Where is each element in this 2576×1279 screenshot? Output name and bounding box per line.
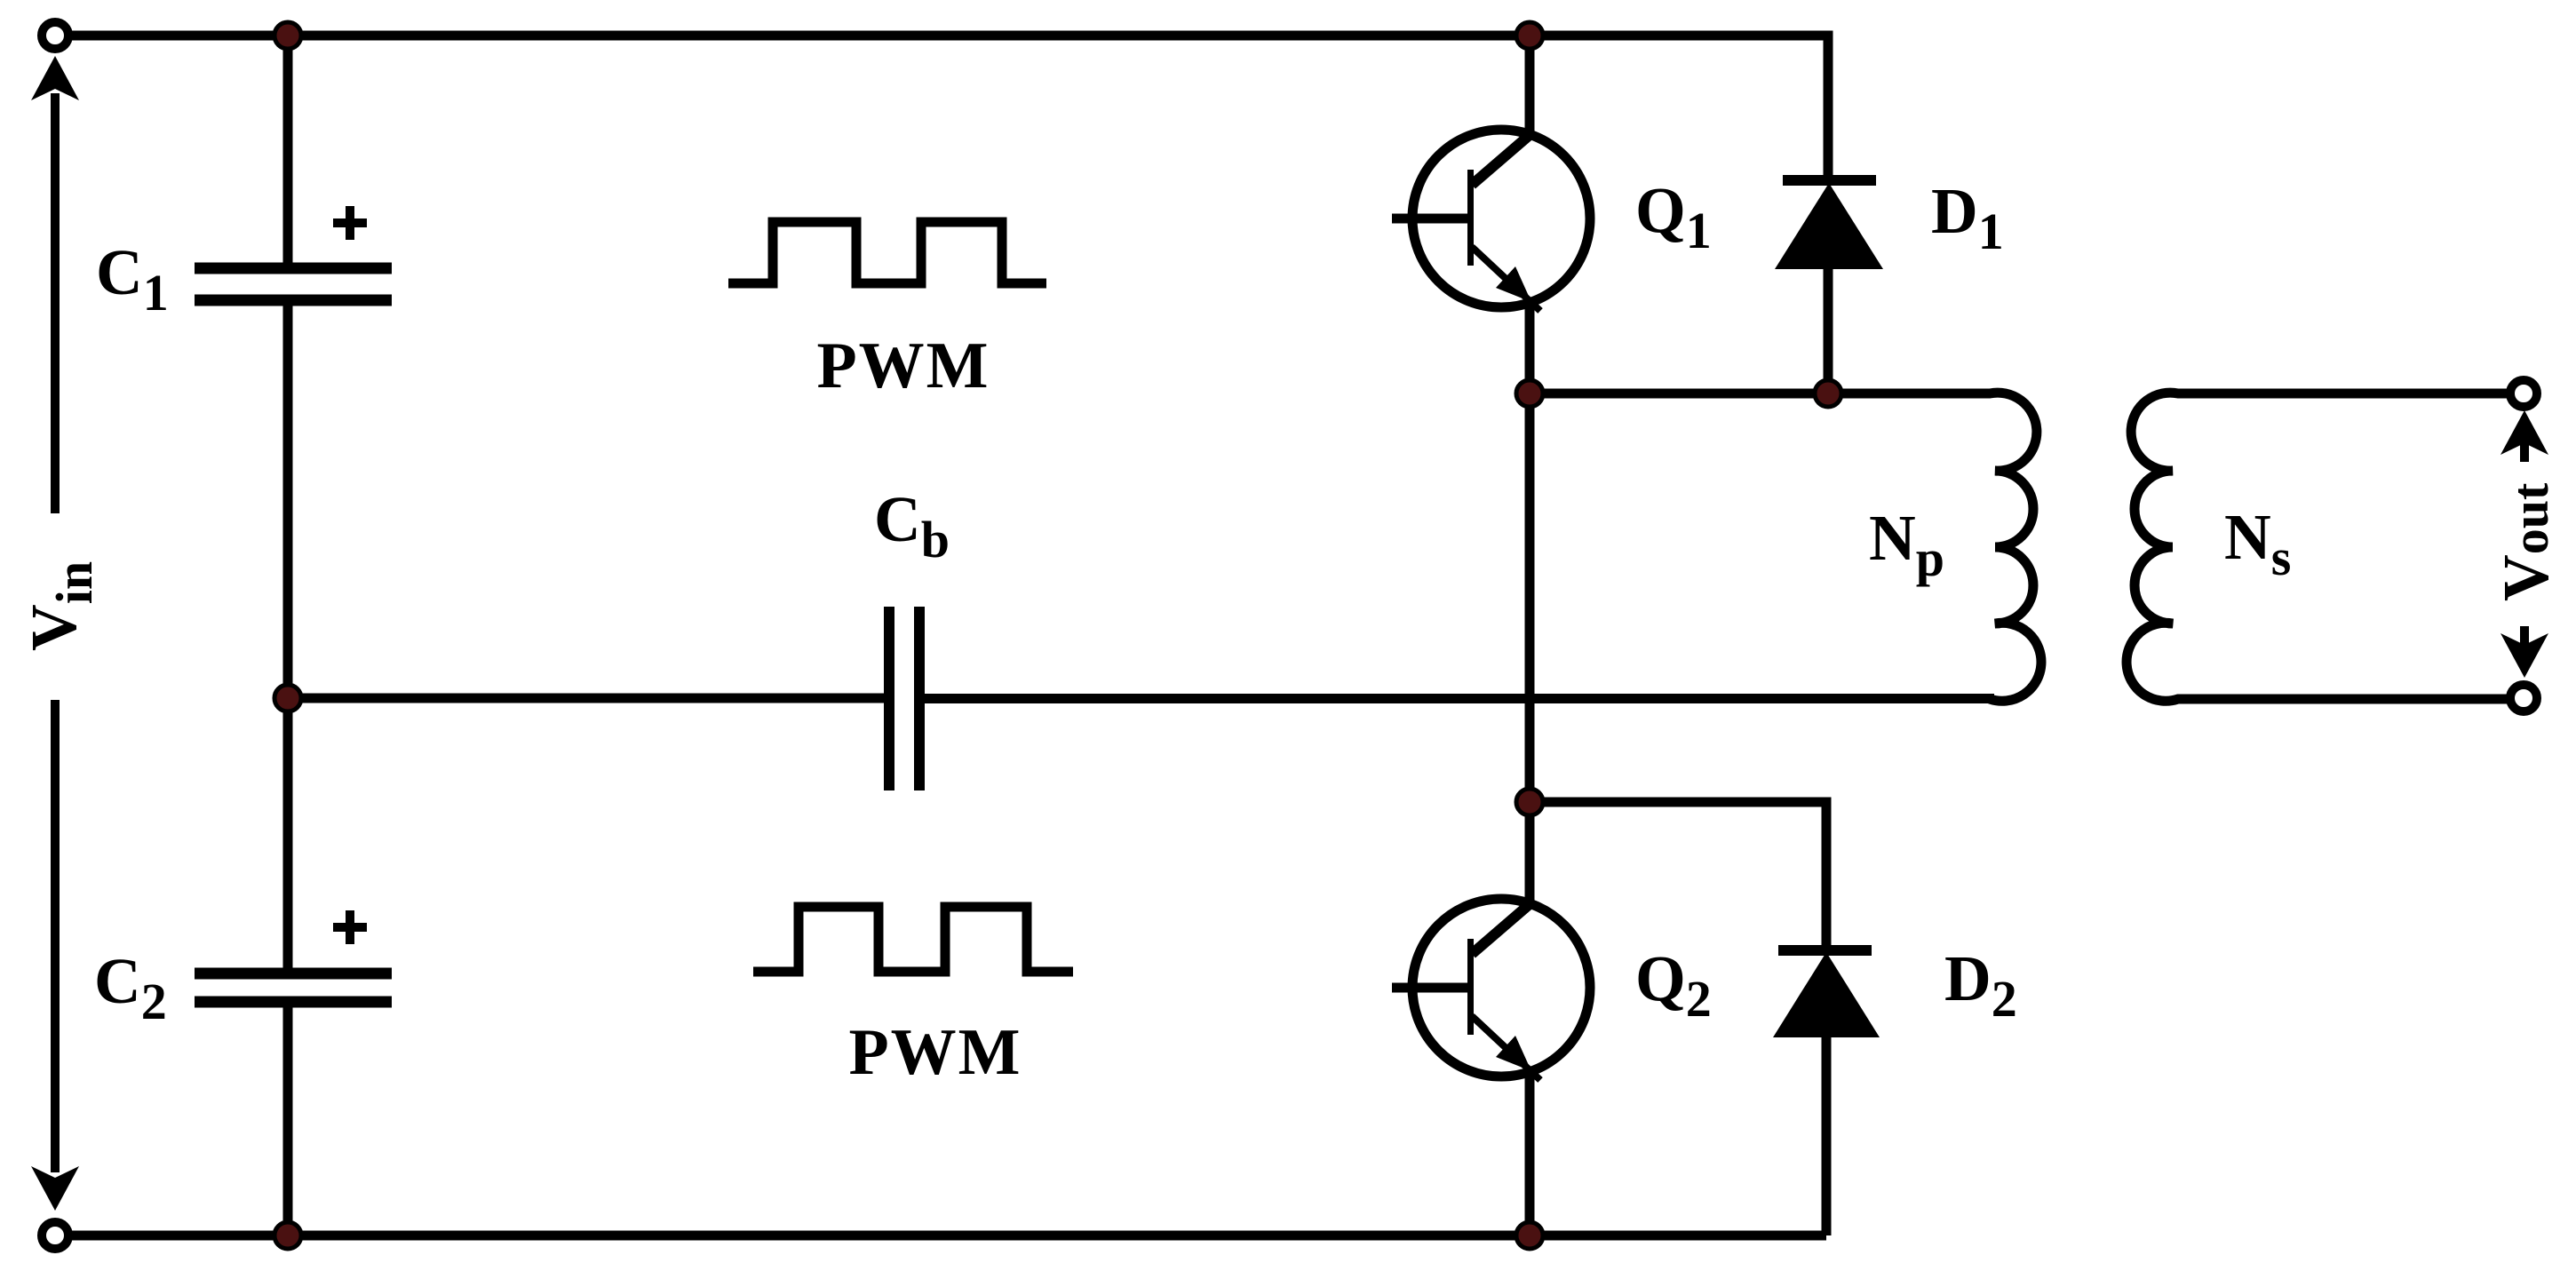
terminal bottom left — [42, 1222, 68, 1249]
node junction bottom Q2 branch — [1516, 1222, 1543, 1249]
wire Q2 emitter lead — [1525, 1069, 1535, 1235]
wire bottom rail — [55, 1231, 1826, 1241]
PWM waveform top — [728, 222, 1046, 283]
diode D1 — [1775, 180, 1883, 269]
transistor Q1 — [1392, 130, 1590, 311]
transistor Q2 — [1392, 899, 1590, 1080]
wire Q2 collector lead — [1525, 802, 1535, 904]
capacitor C1 — [195, 268, 392, 300]
Vin arrow up — [31, 56, 79, 100]
node junction switch node Q1 — [1516, 380, 1543, 407]
wire top rail with D1 drop — [55, 36, 1828, 180]
diode D2 — [1773, 950, 1880, 1037]
wire Vin annotation upper segment — [51, 93, 60, 513]
wire middle horizontal to Cb — [288, 694, 889, 703]
wire Vin annotation lower segment — [51, 700, 60, 1172]
inductor Ns secondary winding with output wires — [2127, 393, 2524, 701]
svg-text:PWM: PWM — [816, 330, 990, 402]
wire Q2 collector to D2 top — [1530, 802, 1826, 950]
wire Q1 emitter lead — [1525, 300, 1535, 393]
inductor Np primary winding with switch-node wire — [1530, 393, 2041, 701]
svg-text:PWM: PWM — [848, 1016, 1022, 1089]
capacitor C2 plus sign — [333, 910, 367, 944]
capacitor C2 — [195, 973, 392, 1002]
wire D1 lower lead — [1824, 269, 1833, 393]
wire Vout annotation upper stem — [2520, 441, 2529, 462]
wire Vout annotation lower stem — [2520, 626, 2529, 647]
node junction middle C branch — [274, 685, 301, 711]
wire middle horizontal from Cb to Np bottom — [919, 694, 1994, 703]
terminal Vout bottom — [2510, 685, 2537, 711]
node junction bottom C branch — [274, 1222, 301, 1249]
wire switch-node vertical — [1525, 393, 1535, 802]
terminal top left — [42, 22, 68, 49]
Vout arrow down — [2500, 633, 2548, 678]
node junction top C branch — [274, 22, 301, 49]
terminal Vout top — [2510, 380, 2537, 407]
svg-text:Vout: Vout — [2490, 482, 2562, 601]
node junction Q2 collector — [1516, 789, 1543, 815]
wire Q1 collector lead — [1525, 36, 1535, 135]
wire D2 lower lead — [1822, 1037, 1832, 1235]
wire left capacitor branch lower — [283, 1007, 293, 1235]
wire left capacitor branch upper — [283, 36, 293, 263]
node junction top Q1 branch — [1516, 22, 1543, 49]
Vin arrow down — [31, 1166, 79, 1211]
PWM waveform bottom — [753, 907, 1073, 972]
capacitor C1 plus sign — [333, 206, 367, 240]
node junction switch node D1 — [1815, 380, 1841, 407]
wire left capacitor branch middle — [283, 306, 293, 968]
capacitor Cb — [889, 607, 919, 790]
Vout arrow up — [2500, 410, 2548, 455]
